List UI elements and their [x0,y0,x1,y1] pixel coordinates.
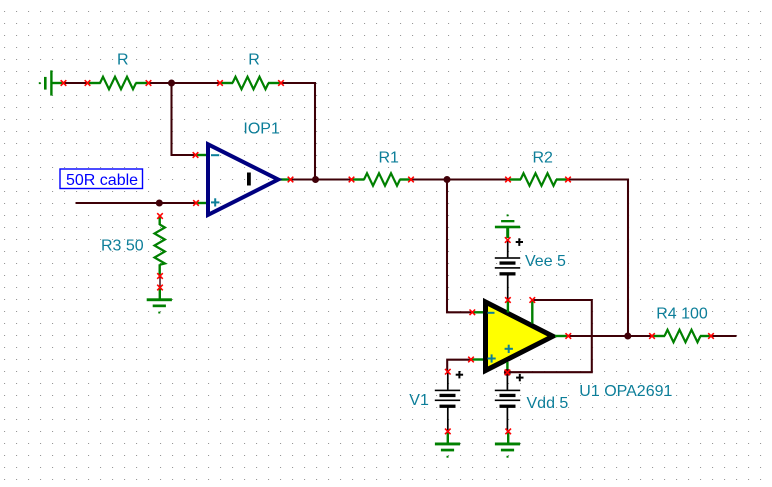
svg-text:V1: V1 [409,392,429,409]
svg-text:R2: R2 [533,150,554,167]
svg-text:R: R [248,52,260,69]
svg-text:U1 OPA2691: U1 OPA2691 [579,383,672,400]
svg-text:R: R [117,52,129,69]
svg-text:Vdd 5: Vdd 5 [527,395,569,412]
svg-text:R3 50: R3 50 [101,238,144,255]
svg-text:R4 100: R4 100 [656,306,708,323]
svg-text:IOP1: IOP1 [243,121,280,138]
svg-text:R1: R1 [379,150,400,167]
svg-text:Vee 5: Vee 5 [525,253,566,270]
svg-text:50R cable: 50R cable [66,172,138,189]
